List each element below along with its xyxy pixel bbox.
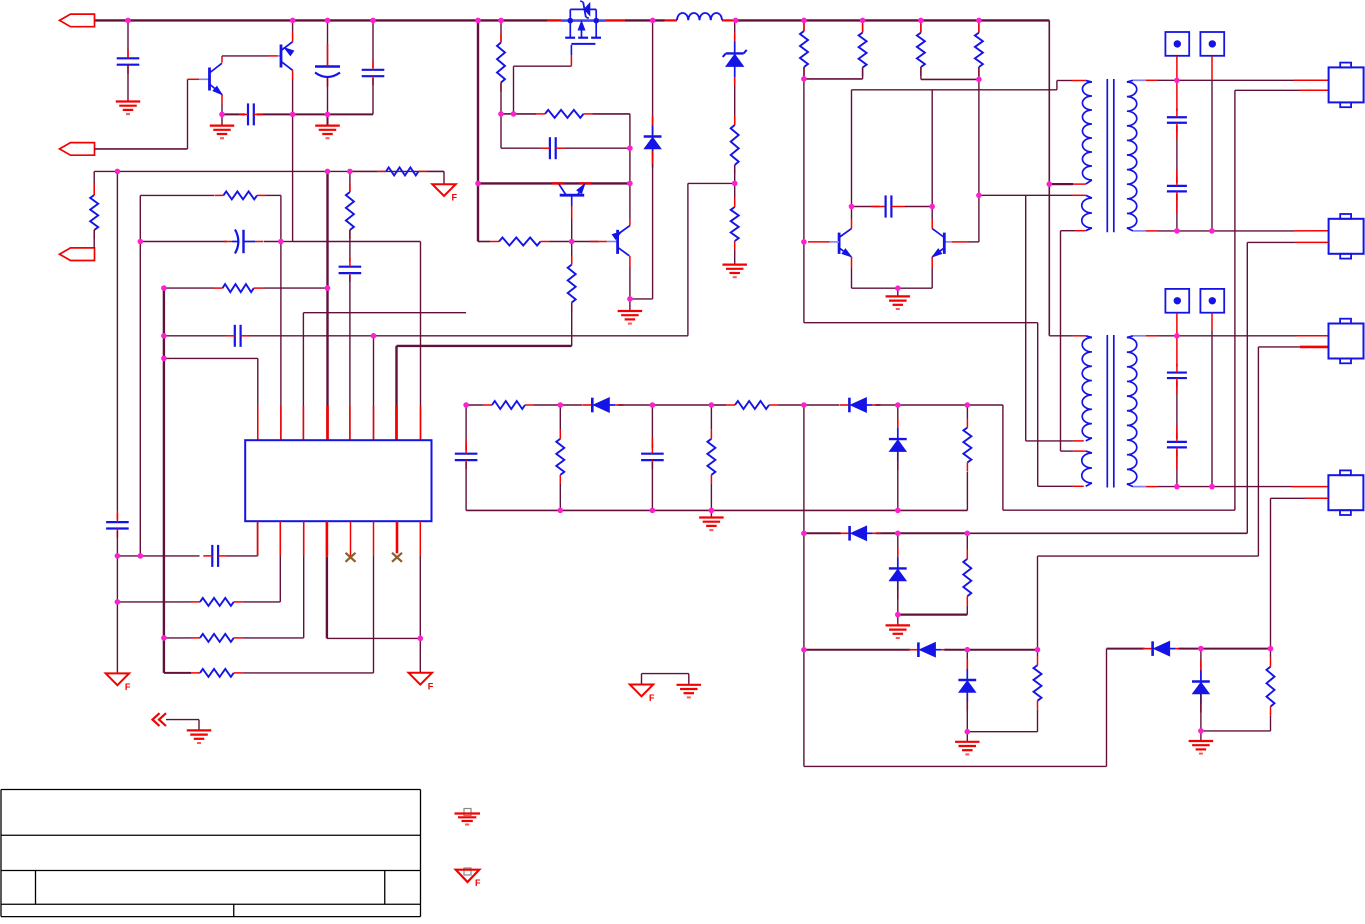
capacitor C2 xyxy=(247,103,249,125)
IC bottom row y556 xyxy=(117,555,199,557)
diode D4 at x897 xyxy=(897,405,899,439)
junction dots xyxy=(125,18,131,24)
resistor R17 xyxy=(920,20,922,32)
wire T2 sec top to conn3 xyxy=(1177,335,1296,337)
square pad P1 xyxy=(1165,32,1189,56)
capacitor C11 xyxy=(651,405,653,448)
svg-text:F: F xyxy=(452,193,458,203)
ground xyxy=(327,114,329,125)
resistor R14 vertical xyxy=(966,472,968,511)
connector CN2 xyxy=(1329,219,1364,254)
wire Q2 node down to cap row xyxy=(292,114,294,241)
wire gnd net y114 xyxy=(222,113,245,115)
IC bottom row y672 xyxy=(164,672,191,674)
wire y195 row to R7 xyxy=(140,194,214,196)
wire R9 chain to IC xyxy=(349,171,351,192)
resistor R18 xyxy=(978,20,980,32)
resistor R11 xyxy=(735,401,769,409)
IC bottom pin red overlays xyxy=(257,521,259,556)
square pad P2 xyxy=(1200,32,1224,56)
wire zener bottom row xyxy=(898,613,968,615)
resistor R10 xyxy=(492,401,525,409)
IC U1 box xyxy=(245,440,431,521)
flag F4 ground pair xyxy=(641,674,643,685)
diode D9 xyxy=(1151,641,1154,656)
resistor R23 xyxy=(1267,667,1275,707)
wire T1 sec top to conn1 xyxy=(1177,79,1294,81)
transistor Q2 xyxy=(280,45,283,68)
diode D10 xyxy=(1200,649,1202,682)
resistor R7 xyxy=(223,191,257,199)
wire y648 cluster B xyxy=(1107,648,1145,650)
diode D8 x967 xyxy=(966,650,968,680)
ground xyxy=(1200,731,1202,741)
wire R1 to node xyxy=(500,83,502,114)
diode D1 xyxy=(652,126,654,137)
wire conn4 pin2 net xyxy=(1305,497,1328,499)
wire x979 down to QD base xyxy=(978,79,980,242)
wire x163 thick xyxy=(163,288,165,673)
resistor R20 xyxy=(734,183,736,198)
wire D1 down to QB node xyxy=(652,151,654,299)
resistor R12 vertical xyxy=(559,405,561,430)
resistor R3 xyxy=(499,238,541,246)
connector CN1 xyxy=(1329,67,1364,102)
wire y288 row xyxy=(164,287,214,289)
IC bottom row y638 left xyxy=(164,637,191,639)
wire y358 row xyxy=(164,357,258,359)
resistor R2 horizontal xyxy=(514,113,537,115)
transformer T1 primary A xyxy=(1082,82,1091,180)
transistor Q7 diff right xyxy=(943,233,946,254)
wire y195 row right xyxy=(979,194,1072,196)
capacitor C16 xyxy=(1176,381,1178,439)
wire y405 output rail xyxy=(466,404,483,406)
flag F1 xyxy=(432,184,455,196)
capacitor C6 xyxy=(106,521,129,523)
wire to resistor R23 xyxy=(1201,730,1271,732)
wire node pair to gate xyxy=(501,113,514,115)
wire rail to D1 xyxy=(652,20,654,135)
zener Z1 chain from rail xyxy=(734,20,736,42)
diode D5 xyxy=(848,526,851,541)
wire y533 left part xyxy=(898,532,968,534)
chevron out symbol xyxy=(153,713,160,726)
capacitor C1 xyxy=(117,57,140,59)
wire Q2 collector down xyxy=(292,70,294,79)
ground xyxy=(187,729,212,731)
diode D2 xyxy=(591,398,594,413)
ground xyxy=(116,100,141,102)
wire rail to C1 xyxy=(127,20,129,57)
transistor Q1 xyxy=(208,68,211,91)
wire y183 thick xyxy=(478,182,630,184)
capacitor C9 xyxy=(339,266,362,268)
wire IC pin x281 xyxy=(280,242,282,441)
capacitor C4 xyxy=(372,20,374,67)
transistor Q5 xyxy=(616,230,619,254)
transformer T1 core xyxy=(1106,79,1108,232)
resistor R1 xyxy=(497,43,505,83)
capacitor C5 xyxy=(549,137,551,159)
IC bottom row y602 xyxy=(117,601,191,603)
connector CN4 xyxy=(1328,475,1363,510)
diode D3 xyxy=(848,398,851,413)
transistor Q6 diff left xyxy=(838,233,841,254)
resistor R26 xyxy=(200,669,234,677)
wire T1 sec bottom to conn2 xyxy=(1177,230,1212,232)
wire thick to IC pin xyxy=(397,345,572,347)
capacitor C17 xyxy=(211,545,213,567)
wire J2 to Q1 base xyxy=(95,148,188,150)
wire y335 row xyxy=(164,335,226,337)
input connector J1 arrow xyxy=(60,14,95,27)
wire x117 long xyxy=(116,171,118,511)
wire rail branch x501 to R1 xyxy=(500,20,502,42)
IC bottom row y638 right xyxy=(327,637,420,639)
diode D6 x898 xyxy=(897,533,899,568)
svg-text:F: F xyxy=(649,693,655,703)
capacitor C12 between collectors xyxy=(852,206,880,208)
nc mark x2 xyxy=(392,553,402,562)
input connector J3 arrow xyxy=(60,248,95,261)
ground xyxy=(710,510,712,517)
wire Q6 collector up to T1 xyxy=(851,219,853,229)
resistor R25 xyxy=(200,634,234,642)
transformer T2 primary A xyxy=(1082,338,1092,439)
svg-text:F: F xyxy=(125,682,131,692)
legend earth ground xyxy=(464,809,471,816)
square pad P3 xyxy=(1165,289,1189,313)
transformer T2 primary B xyxy=(1082,453,1092,483)
transformer T2 secondary xyxy=(1127,338,1137,485)
capacitor C10 xyxy=(455,453,478,455)
transformer T2 core xyxy=(1106,335,1108,488)
wire Q5 collector up xyxy=(629,219,631,226)
wire Q7 emitter xyxy=(931,257,933,268)
capacitor C3 polarized xyxy=(327,20,329,66)
svg-text:F: F xyxy=(428,681,434,691)
wire rail corner down x1049 xyxy=(1048,20,1050,335)
resistor R21 xyxy=(963,559,971,596)
wire cap row y241 xyxy=(140,241,227,243)
IC U1 bottom pins red xyxy=(257,521,259,556)
wire node to C5 xyxy=(500,114,502,148)
ground xyxy=(677,684,702,686)
wire rail branch x478 thick xyxy=(477,20,479,241)
resistor R22 xyxy=(1034,665,1042,701)
legend flag ground xyxy=(464,868,471,875)
capacitor C14 xyxy=(1176,126,1178,184)
wire base row y241 right xyxy=(478,241,490,243)
inductor L1 xyxy=(677,13,722,20)
resistor R19 xyxy=(731,125,739,165)
wire x1037 to conn3 pin2 xyxy=(1037,556,1039,650)
ground xyxy=(221,114,223,125)
resistor R4 vertical below Q4 xyxy=(571,242,573,265)
wire Q2 emitter to rail xyxy=(292,31,294,42)
wire zener row to resistor xyxy=(967,731,1037,733)
wire x327 thick vcc xyxy=(326,171,328,440)
wire y510 bottom xyxy=(466,509,967,511)
wire conn2 pin2 net xyxy=(1247,241,1295,243)
resistor R16 xyxy=(862,20,864,32)
wire x804 lower net xyxy=(803,405,805,766)
title block xyxy=(1,789,421,791)
wire Q7 collector up xyxy=(931,219,933,229)
flag F2 xyxy=(106,673,129,685)
mosfet Q3 with body zener xyxy=(561,19,606,22)
capacitor C15 xyxy=(1176,336,1178,367)
wire x140 xyxy=(139,195,141,556)
main power rail wire xyxy=(95,19,548,21)
ground xyxy=(966,732,968,742)
wire Q1 collector to Q2 base xyxy=(221,56,223,63)
wire QC base net x804 xyxy=(803,79,805,323)
connector CN3 xyxy=(1329,324,1364,359)
ground xyxy=(722,264,747,266)
wire IC pin x373 top xyxy=(373,336,375,440)
transistor Q4 horizontal xyxy=(560,194,585,197)
rail resistors R15 xyxy=(803,20,805,31)
svg-text:F: F xyxy=(475,878,481,888)
wire Q1 emitter down xyxy=(221,95,223,105)
resistor R9 xyxy=(346,192,354,230)
flag F3 xyxy=(409,673,432,685)
nc mark x1 xyxy=(346,553,356,562)
capacitor C8 xyxy=(234,325,236,347)
capacitor C13 xyxy=(1176,80,1178,111)
wire T2 sec bottom to conn4 xyxy=(1177,486,1212,488)
wire y171 row xyxy=(94,170,444,172)
wire C1 to ground xyxy=(127,65,129,102)
wire Q6 emitter to common xyxy=(851,257,853,268)
wire C5 to x630 xyxy=(565,147,630,149)
diode D7 xyxy=(917,642,920,657)
ground diff pair xyxy=(897,288,899,296)
resistor R24 xyxy=(200,598,234,606)
input connector J2 arrow xyxy=(60,143,95,156)
wire y312 row xyxy=(303,312,466,314)
ground xyxy=(629,299,631,311)
resistor R13 vertical xyxy=(710,405,712,430)
ground xyxy=(897,615,899,625)
resistor R5 vertical to J3 xyxy=(90,195,98,230)
resistor R8 xyxy=(223,284,254,292)
wire y405 to conn via y510 xyxy=(1002,405,1004,510)
transformer T1 primary B xyxy=(1082,198,1092,228)
wire Q5 emitter down xyxy=(629,256,631,267)
resistor R6 horizontal xyxy=(350,170,377,172)
square pad P4 xyxy=(1200,289,1224,313)
wire y649 row xyxy=(804,649,910,651)
transformer T1 secondary xyxy=(1127,82,1137,228)
capacitor C7 polarized xyxy=(235,230,238,254)
wire x466 cap to bottom xyxy=(465,405,467,451)
